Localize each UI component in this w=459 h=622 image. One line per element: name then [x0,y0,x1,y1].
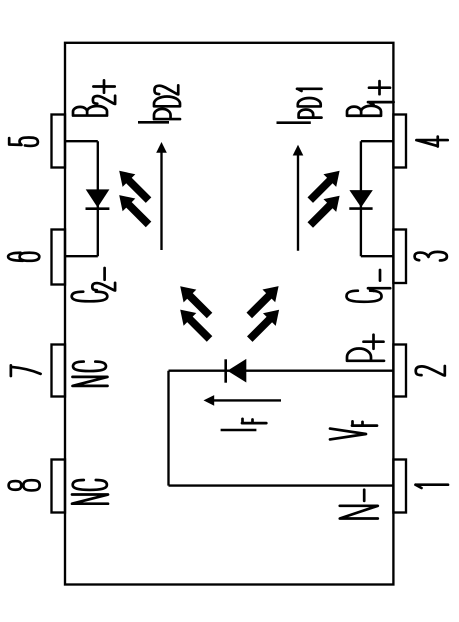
wire pin4 to PD1 [361,140,394,142]
label C1- : C [346,291,381,302]
photodiode PD1 cathode bar [349,207,372,210]
wire LED loop left to pin1 [169,484,394,486]
label VF : V [330,429,366,440]
pin 8 box [52,460,66,513]
current arrow IF [204,395,282,406]
label NC pin8: C [73,480,107,490]
wire LED loop top [167,371,169,486]
IC body outline [65,43,393,585]
label IF : subscript F [242,419,266,423]
pin 7 box [52,345,66,397]
light arrow C2 from LED [243,303,285,345]
label B1+ : plus [369,81,390,94]
pin 6 box [52,230,66,285]
label C1- : subscript 1 [368,288,390,291]
label C2- : C [72,292,108,302]
label B2+ : B [73,106,107,116]
pin number 7 [11,365,41,376]
photodiode PD2 cathode bar [86,207,110,210]
label B2+ : subscript 2 [93,96,115,104]
label B1+ : B [347,106,381,116]
photodiode PD2 triangle [86,189,110,207]
pin number 1 [416,485,449,488]
label P+ : plus [364,335,384,349]
label B2+ : plus [93,80,114,92]
light arrow D2 to PD1 [304,189,346,231]
label N- : N [340,506,378,519]
label IPD2 : subscript 2 [154,85,178,94]
pin number 3 [415,252,447,261]
label IPD2 : subscript D [154,96,180,106]
pin 1 box [393,460,406,513]
pin number 4 [416,137,447,147]
label IPD1 : I [277,121,311,124]
label NC pin8: N [72,495,108,504]
wire PD2 branch [97,141,99,256]
label C2- : minus [103,268,106,280]
label B1+ : subscript 1 [368,102,394,105]
light arrow B1 from LED [174,280,216,322]
pin 5 box [52,115,66,168]
label VF : subscript F [352,421,377,425]
pin 4 box [393,115,406,168]
LED cathode bar [224,359,227,382]
current arrow IPD2 [156,142,167,250]
label IPD1 : subscript 1 [297,89,322,91]
wire pin3 to PD1 [361,255,394,257]
label IPD1 : subscript P [299,109,322,117]
label C2- : subscript 2 [92,283,115,291]
light arrow A1 to PD2 [113,164,155,206]
wire pin2 vertical (LED anode) [169,370,394,372]
label IPD1 : subscript D [298,98,321,106]
light arrow D1 to PD1 [304,164,346,206]
wire pin5 to PD2 [65,140,98,142]
pin 2 box [393,345,406,397]
light arrow B2 from LED [174,303,216,345]
LED triangle [227,359,246,383]
light arrow C1 from LED [243,280,285,322]
label P+ : P [347,349,384,361]
label IF : I [221,429,257,432]
photodiode PD1 triangle [349,190,372,207]
pin 3 box [393,230,406,284]
pin number 5 [9,137,38,145]
label IPD2 : I [138,121,169,124]
label C1- : minus [379,270,382,281]
pin number 6 [8,253,39,261]
label IPD2 : subscript P [154,109,180,119]
label NC pin7: C [73,362,106,371]
pin number 8 [9,480,40,490]
light arrow A2 to PD2 [113,189,155,231]
current arrow IPD1 [293,145,304,251]
wire PD1 branch [360,141,362,256]
label NC pin7: N [72,377,107,386]
pin number 2 [416,366,445,375]
label N- : minus [363,490,366,501]
wire pin6 to PD2 [65,255,98,257]
